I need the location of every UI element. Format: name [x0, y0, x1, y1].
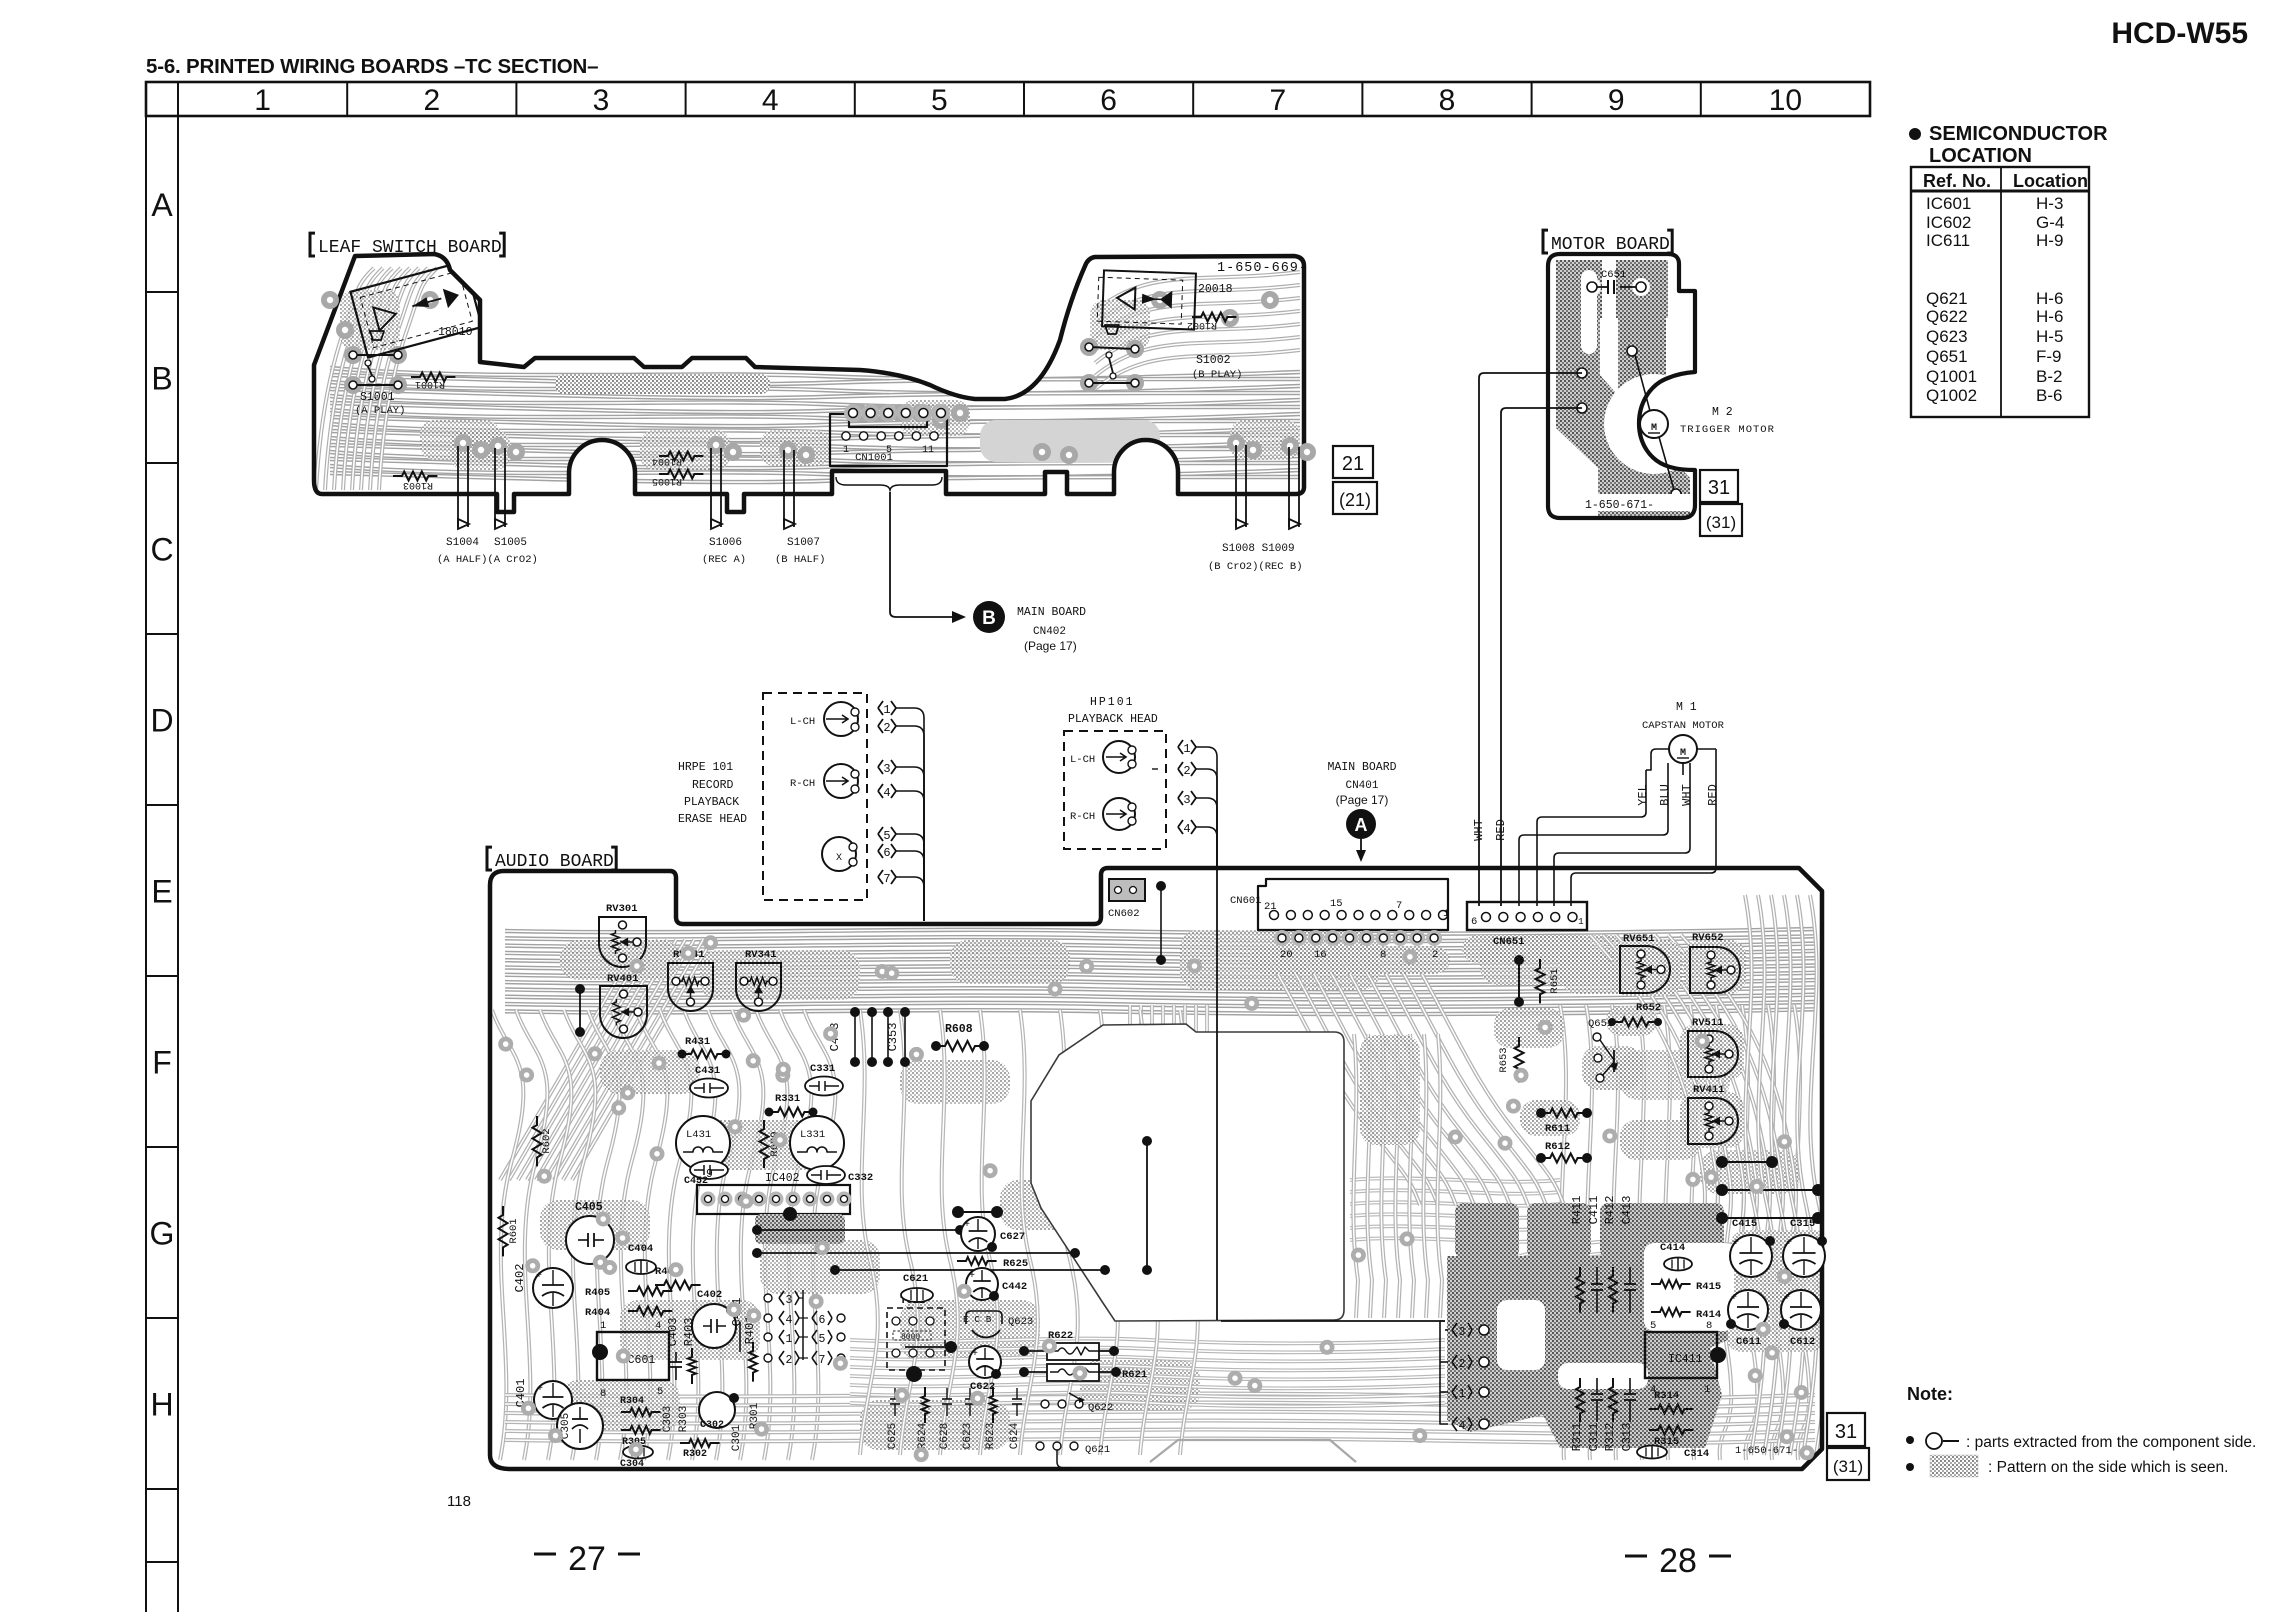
- svg-text:R651: R651: [1549, 968, 1561, 993]
- svg-text:C413: C413: [1620, 1196, 1634, 1225]
- head connection chevrons left: [764, 1294, 772, 1302]
- sheet ref boxes 21: [1333, 446, 1373, 478]
- svg-text:+: +: [972, 1349, 978, 1360]
- svg-text:7: 7: [1269, 84, 1286, 117]
- motor board pads: [1577, 368, 1587, 378]
- svg-text:C414: C414: [1660, 1242, 1685, 1254]
- svg-text:8: 8: [600, 1388, 606, 1400]
- svg-text:5-6. PRINTED WIRING BOARDS –T: 5-6. PRINTED WIRING BOARDS –TC SECTION–: [146, 55, 598, 78]
- motor board copper pattern: [1556, 260, 1668, 318]
- svg-text:21: 21: [1342, 453, 1364, 475]
- svg-text:CN401: CN401: [1345, 780, 1378, 792]
- svg-text:C315: C315: [1790, 1218, 1815, 1230]
- svg-text:B: B: [151, 361, 172, 397]
- svg-text:R1001: R1001: [415, 378, 445, 389]
- R-CH head coil: [824, 764, 858, 798]
- svg-text:WHT: WHT: [1472, 819, 1486, 841]
- svg-text:R-CH: R-CH: [790, 778, 815, 790]
- svg-text:CAPSTAN MOTOR: CAPSTAN MOTOR: [1642, 720, 1725, 732]
- connector CN602: [1109, 879, 1145, 901]
- semiconductor location table: [1909, 128, 1921, 140]
- svg-text:(Page 17): (Page 17): [1336, 793, 1389, 807]
- brace and pointer to B: [836, 477, 942, 491]
- svg-text:C402: C402: [513, 1264, 527, 1293]
- dark copper pattern region bottom right: [1447, 1203, 1734, 1448]
- svg-text:+: +: [964, 1220, 970, 1231]
- motor board label: [1543, 230, 1548, 253]
- svg-text:C627: C627: [1000, 1231, 1025, 1243]
- svg-text:R611: R611: [1545, 1123, 1570, 1135]
- svg-text:R-CH: R-CH: [1070, 811, 1095, 823]
- svg-text:RED: RED: [1706, 784, 1720, 806]
- svg-text:M 2: M 2: [1712, 406, 1733, 419]
- svg-text:C: C: [150, 532, 173, 568]
- svg-text:6: 6: [819, 1314, 826, 1327]
- resistor R1003: [393, 472, 437, 481]
- svg-text:TRIGGER MOTOR: TRIGGER MOTOR: [1680, 424, 1775, 436]
- svg-text:HRPE 101: HRPE 101: [678, 761, 733, 774]
- svg-text:4: 4: [883, 786, 890, 800]
- trigger motor M2: [1640, 410, 1668, 438]
- svg-text:118: 118: [447, 1493, 471, 1510]
- svg-text:C612: C612: [1790, 1336, 1815, 1348]
- svg-text:A: A: [151, 187, 173, 223]
- svg-text:RV511: RV511: [1692, 1017, 1724, 1029]
- svg-text:C628: C628: [939, 1423, 951, 1449]
- svg-text:Q1001: Q1001: [1926, 367, 1977, 386]
- L-CH head coil: [824, 702, 858, 736]
- svg-text:E C B: E C B: [963, 1314, 992, 1325]
- svg-text:+: +: [1731, 1293, 1737, 1304]
- svg-text:Q622: Q622: [1926, 307, 1968, 326]
- svg-text:Q623: Q623: [1008, 1316, 1033, 1328]
- svg-text:R303: R303: [678, 1406, 690, 1432]
- svg-text:5: 5: [883, 829, 890, 843]
- svg-text:C405: C405: [575, 1201, 603, 1214]
- leaf switch board label: [310, 233, 315, 256]
- resistors R1004 R1005: [659, 452, 703, 461]
- right head chevron column: [1452, 1323, 1457, 1337]
- svg-text:R331: R331: [775, 1093, 800, 1105]
- capacitor C332: [807, 1166, 845, 1184]
- svg-text:C651: C651: [1601, 269, 1626, 281]
- svg-text:31: 31: [1708, 477, 1730, 499]
- svg-text:R1005: R1005: [652, 475, 682, 486]
- capacitor C314: [1637, 1446, 1667, 1459]
- svg-text:C442: C442: [1002, 1281, 1027, 1293]
- svg-text:Q1002: Q1002: [1926, 386, 1977, 405]
- svg-text:4: 4: [655, 1320, 661, 1332]
- svg-text:+: +: [1786, 1238, 1792, 1249]
- test point trapezoid right: [1105, 325, 1119, 334]
- svg-text:C621: C621: [903, 1273, 928, 1285]
- svg-text:R608: R608: [945, 1023, 973, 1036]
- svg-text:C331: C331: [810, 1063, 835, 1075]
- svg-text:2: 2: [883, 721, 890, 735]
- audio board pads: [1704, 1170, 1719, 1185]
- svg-text:R412: R412: [1603, 1196, 1617, 1225]
- audio board label: [487, 847, 492, 870]
- svg-text:27: 27: [568, 1540, 606, 1578]
- svg-text:CN601: CN601: [1230, 895, 1262, 907]
- resistor R653: [1515, 1037, 1524, 1083]
- connector CN601: [1258, 879, 1448, 930]
- svg-text:RV652: RV652: [1692, 932, 1724, 944]
- svg-text:C301: C301: [731, 1424, 743, 1451]
- page number 28: [1625, 1555, 1647, 1558]
- svg-text:H: H: [150, 1387, 173, 1423]
- svg-text:B-6: B-6: [2036, 386, 2062, 405]
- HP101 dashed box: [1064, 731, 1166, 849]
- switch S1001 (A PLAY): [353, 354, 398, 356]
- svg-text:R405: R405: [585, 1287, 610, 1299]
- svg-text:X: X: [836, 853, 842, 864]
- capacitor C612: [1781, 1290, 1821, 1330]
- IC601: [597, 1332, 669, 1380]
- svg-text:C402: C402: [697, 1289, 722, 1301]
- svg-text:E: E: [151, 874, 172, 910]
- capacitor C302: [699, 1392, 735, 1428]
- svg-text:8: 8: [1439, 84, 1456, 117]
- wire vertical through board: [1216, 868, 1218, 1320]
- HRPE101 pins 1-7: [878, 701, 883, 715]
- svg-text:Q621: Q621: [1085, 1444, 1110, 1456]
- svg-text:Q622: Q622: [1088, 1402, 1113, 1414]
- svg-text:2: 2: [423, 84, 440, 117]
- svg-text:4: 4: [1183, 822, 1190, 836]
- svg-text:8000: 8000: [901, 1333, 920, 1342]
- svg-text:3: 3: [593, 84, 610, 117]
- resistor R414: [1651, 1308, 1691, 1316]
- svg-text:: Pattern on the side which is: : Pattern on the side which is seen.: [1988, 1459, 2228, 1476]
- svg-text:R414: R414: [1696, 1309, 1721, 1321]
- resistor R1001: [411, 373, 455, 382]
- svg-text:C404: C404: [628, 1243, 653, 1255]
- svg-text:B: B: [982, 608, 996, 629]
- resistor R302: [680, 1439, 720, 1447]
- page number 27: [534, 1553, 556, 1556]
- svg-text:MAIN BOARD: MAIN BOARD: [1017, 606, 1086, 619]
- svg-text:Q621: Q621: [1926, 289, 1968, 308]
- svg-text:6: 6: [883, 846, 890, 860]
- svg-text:Note:: Note:: [1907, 1384, 1953, 1404]
- svg-text:8: 8: [1380, 949, 1386, 961]
- svg-text:9: 9: [1608, 84, 1625, 117]
- svg-text:S1007: S1007: [787, 537, 820, 549]
- svg-text:RV341: RV341: [745, 949, 777, 961]
- resistor R1002: [1192, 313, 1236, 322]
- svg-text:RV411: RV411: [1693, 1084, 1725, 1096]
- svg-text:WHT: WHT: [1680, 784, 1694, 806]
- erase head coil X: [822, 837, 856, 871]
- svg-text:CN402: CN402: [1033, 626, 1066, 638]
- svg-text:C622: C622: [970, 1381, 995, 1393]
- svg-text:HP101: HP101: [1090, 696, 1135, 709]
- svg-text:R623: R623: [985, 1423, 997, 1449]
- motor M1 wires to CN651: [1646, 749, 1670, 770]
- svg-text:6: 6: [1100, 84, 1117, 117]
- svg-text:B-2: B-2: [2036, 367, 2062, 386]
- svg-text:6: 6: [1471, 916, 1477, 928]
- svg-text:4: 4: [762, 84, 779, 117]
- HRPE101 wires to audio board: [896, 708, 924, 921]
- svg-text:1-650-671-: 1-650-671-: [1585, 499, 1654, 512]
- switch pointers S1004..S1009: [457, 446, 459, 527]
- capacitor C627: [961, 1217, 995, 1251]
- svg-text:1: 1: [1704, 1384, 1710, 1396]
- svg-text:R404: R404: [585, 1307, 610, 1319]
- audio board white cutout region: [1031, 1024, 1344, 1321]
- svg-text:CN602: CN602: [1108, 908, 1140, 920]
- svg-text:(21): (21): [1339, 490, 1371, 510]
- svg-text:28: 28: [1659, 1542, 1697, 1580]
- svg-text:+: +: [536, 1271, 542, 1282]
- svg-text:C311: C311: [1587, 1423, 1601, 1452]
- svg-text:HCD-W55: HCD-W55: [2111, 17, 2248, 50]
- svg-text:C415: C415: [1732, 1218, 1757, 1230]
- svg-text:4: 4: [786, 1314, 793, 1327]
- svg-text:7: 7: [1396, 900, 1402, 912]
- audio board copper texture: [505, 929, 1815, 934]
- svg-text:2: 2: [786, 1354, 793, 1367]
- resistor R602: [533, 1116, 542, 1166]
- svg-text:H-6: H-6: [2036, 307, 2063, 326]
- svg-text:Q623: Q623: [1926, 327, 1968, 346]
- svg-text:21: 21: [1264, 901, 1277, 913]
- svg-text:SEMICONDUCTOR: SEMICONDUCTOR: [1929, 123, 2108, 145]
- leaf board pads: [344, 346, 362, 364]
- connector CN1001: [830, 414, 947, 466]
- svg-text:C303: C303: [662, 1406, 674, 1432]
- svg-text:L431: L431: [686, 1129, 711, 1141]
- capacitor C622: [969, 1346, 1001, 1378]
- svg-text:M 1: M 1: [1676, 701, 1697, 714]
- svg-text:RV401: RV401: [607, 973, 639, 985]
- svg-text:3: 3: [1183, 793, 1190, 807]
- svg-text:1-650-669-: 1-650-669-: [1217, 261, 1308, 276]
- svg-text:(B CrO2)(REC B): (B CrO2)(REC B): [1208, 561, 1303, 573]
- pad links right: [1722, 1161, 1772, 1163]
- svg-text:C625: C625: [887, 1423, 899, 1449]
- HRPE101 dashed box: [763, 693, 867, 900]
- svg-text:IC611: IC611: [1926, 231, 1970, 250]
- svg-text:+: +: [1733, 1238, 1739, 1249]
- svg-text:2: 2: [1183, 764, 1190, 778]
- svg-text:R304: R304: [620, 1396, 644, 1407]
- svg-text:1-650-671-: 1-650-671-: [1735, 1445, 1798, 1457]
- svg-text:3: 3: [786, 1294, 793, 1307]
- svg-text:MAIN BOARD: MAIN BOARD: [1327, 761, 1396, 774]
- resistor R415: [1651, 1280, 1691, 1288]
- svg-text:C411: C411: [1587, 1196, 1601, 1225]
- svg-text:RV301: RV301: [606, 903, 638, 915]
- connector CN651: [1467, 902, 1587, 930]
- svg-text:BLU: BLU: [1658, 784, 1672, 806]
- wire to head chevrons: [1221, 1320, 1445, 1322]
- svg-text:C313: C313: [1620, 1423, 1634, 1452]
- svg-text:(REC A): (REC A): [702, 554, 746, 566]
- svg-text:4: 4: [1459, 1420, 1466, 1433]
- svg-text:L-CH: L-CH: [1070, 754, 1095, 766]
- svg-text:S1008 S1009: S1008 S1009: [1222, 543, 1295, 555]
- svg-text:R625: R625: [1003, 1258, 1028, 1270]
- svg-text:C431: C431: [695, 1065, 720, 1077]
- svg-text:RED: RED: [1494, 819, 1508, 841]
- svg-text:R1002: R1002: [1187, 319, 1217, 330]
- svg-text:1: 1: [1578, 916, 1584, 927]
- svg-text:C623: C623: [962, 1423, 974, 1449]
- svg-text:1: 1: [600, 1320, 606, 1332]
- svg-text:+: +: [537, 1384, 543, 1395]
- svg-text:(A PLAY): (A PLAY): [355, 405, 405, 417]
- svg-text:S1005: S1005: [494, 537, 527, 549]
- svg-text:20018: 20018: [1198, 283, 1233, 296]
- svg-text:Q651: Q651: [1926, 347, 1968, 366]
- coil L331: [790, 1116, 844, 1170]
- svg-text:(B HALF): (B HALF): [775, 554, 825, 566]
- resistor R625: [957, 1257, 997, 1265]
- wires from motor board to CN651: [1479, 373, 1582, 906]
- svg-text:5: 5: [657, 1386, 663, 1398]
- svg-text:R612: R612: [1545, 1141, 1570, 1153]
- svg-text:R1004: R1004: [652, 455, 682, 466]
- svg-text:G: G: [150, 1216, 175, 1252]
- svg-text:CN651: CN651: [1493, 936, 1525, 948]
- svg-text:+: +: [969, 1271, 975, 1282]
- svg-text:H-9: H-9: [2036, 231, 2063, 250]
- resistor R305: [621, 1426, 661, 1434]
- svg-text:1: 1: [843, 445, 849, 456]
- svg-text:9: 9: [706, 1168, 713, 1181]
- svg-text:5: 5: [931, 84, 948, 117]
- svg-text:H-5: H-5: [2036, 327, 2063, 346]
- svg-text:IC602: IC602: [1926, 213, 1971, 232]
- svg-text:S1004: S1004: [446, 537, 479, 549]
- svg-text:S1001: S1001: [360, 391, 395, 404]
- svg-text:C332: C332: [848, 1172, 873, 1184]
- svg-text:5: 5: [819, 1333, 826, 1346]
- svg-text:R621: R621: [1122, 1369, 1147, 1381]
- capacitor C611: [1728, 1290, 1768, 1330]
- leaf switch assembly 18010: [350, 261, 482, 357]
- svg-text:2: 2: [1459, 1358, 1466, 1371]
- svg-text:S1002: S1002: [1196, 354, 1231, 367]
- svg-text:1: 1: [1183, 742, 1190, 756]
- leaf board copper traces: [330, 368, 1300, 379]
- capacitor C305: [557, 1403, 603, 1449]
- svg-text:R314: R314: [1654, 1390, 1679, 1402]
- svg-text:(31): (31): [1706, 513, 1736, 532]
- resistor R609: [760, 1120, 769, 1168]
- svg-text:F: F: [152, 1045, 172, 1081]
- svg-text:IC601: IC601: [1926, 194, 1971, 213]
- svg-text:C304: C304: [620, 1459, 644, 1470]
- svg-text:1: 1: [1459, 1388, 1466, 1401]
- svg-text:3: 3: [883, 762, 890, 776]
- svg-text:16: 16: [1314, 949, 1327, 961]
- svg-text:R652: R652: [1636, 1002, 1661, 1014]
- svg-text:PLAYBACK HEAD: PLAYBACK HEAD: [1068, 713, 1158, 726]
- svg-text:RV651: RV651: [1623, 933, 1655, 945]
- svg-text:31: 31: [1835, 1421, 1857, 1443]
- svg-text:2: 2: [1432, 949, 1438, 961]
- svg-text:7: 7: [883, 872, 890, 886]
- svg-text:IC402: IC402: [765, 1172, 800, 1185]
- capacitor C452: [690, 1161, 728, 1179]
- sheet ref boxes 31 motor: [1700, 470, 1738, 502]
- svg-text:A: A: [1355, 815, 1368, 835]
- svg-text:R624: R624: [917, 1422, 929, 1449]
- B marker circle: [973, 601, 1005, 633]
- svg-text:R415: R415: [1696, 1281, 1721, 1293]
- coil L431: [676, 1116, 730, 1170]
- svg-text:F-9: F-9: [2036, 347, 2062, 366]
- svg-text:(B PLAY): (B PLAY): [1192, 369, 1242, 381]
- test point trapezoid left: [370, 331, 384, 340]
- svg-text:L331: L331: [800, 1129, 825, 1141]
- svg-text:1: 1: [254, 84, 271, 117]
- svg-text:11: 11: [922, 445, 934, 456]
- svg-text:C302: C302: [700, 1420, 724, 1431]
- grid ruler left letter column: [145, 116, 147, 1612]
- svg-text:R653: R653: [1498, 1047, 1510, 1072]
- svg-text:LOCATION: LOCATION: [1929, 145, 2032, 167]
- svg-text:CN1001: CN1001: [855, 452, 893, 464]
- svg-text:1: 1: [786, 1333, 793, 1346]
- transistor Q623: [966, 1311, 1002, 1324]
- switch S1002 (B PLAY): [1089, 347, 1135, 349]
- svg-text:YEL: YEL: [1636, 784, 1650, 806]
- svg-text:5: 5: [1650, 1320, 1656, 1332]
- sheet ref boxes 31 audio: [1827, 1413, 1865, 1446]
- svg-text:R602: R602: [541, 1128, 553, 1153]
- svg-text:3: 3: [1459, 1326, 1466, 1339]
- svg-text:Location: Location: [2013, 171, 2088, 191]
- svg-text:R601: R601: [508, 1218, 520, 1243]
- svg-text:: parts extracted from the com: : parts extracted from the component sid…: [1966, 1434, 2256, 1451]
- resistor R315: [1649, 1426, 1693, 1435]
- svg-text:RECORD: RECORD: [692, 779, 734, 792]
- grid ruler top row: [146, 82, 1870, 116]
- resistor R611: [1541, 1109, 1587, 1118]
- svg-text:G-4: G-4: [2036, 213, 2064, 232]
- svg-text:(A HALF)(A CrO2): (A HALF)(A CrO2): [437, 554, 538, 566]
- svg-text:15: 15: [1330, 898, 1343, 910]
- resistor R601: [499, 1206, 508, 1256]
- resistor R651: [1518, 960, 1520, 1002]
- svg-text:H-6: H-6: [2036, 289, 2063, 308]
- svg-text:IC411: IC411: [1668, 1353, 1703, 1366]
- svg-text:R1003: R1003: [403, 479, 433, 490]
- svg-text:R311: R311: [1570, 1423, 1584, 1452]
- svg-text:Q651: Q651: [1588, 1018, 1613, 1030]
- svg-text:R431: R431: [685, 1036, 710, 1048]
- svg-text:Ref. No.: Ref. No.: [1923, 171, 1991, 191]
- svg-text:1: 1: [883, 703, 890, 717]
- svg-text:(31): (31): [1833, 1457, 1863, 1476]
- svg-text:7: 7: [819, 1354, 826, 1367]
- svg-text:8: 8: [1706, 1320, 1712, 1332]
- leaf switch assembly 20018: [1097, 270, 1196, 329]
- svg-text:10: 10: [1769, 84, 1802, 117]
- svg-text:R312: R312: [1603, 1423, 1617, 1452]
- svg-text:C611: C611: [1736, 1336, 1761, 1348]
- svg-text:ERASE HEAD: ERASE HEAD: [678, 813, 747, 826]
- svg-text:L-CH: L-CH: [790, 716, 815, 728]
- svg-text:R411: R411: [1570, 1196, 1584, 1225]
- capacitor C304: [623, 1446, 653, 1459]
- svg-text:PLAYBACK: PLAYBACK: [684, 796, 739, 809]
